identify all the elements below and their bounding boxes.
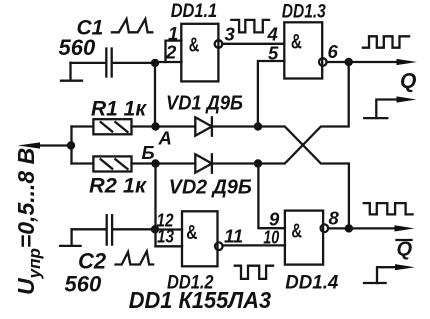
svg-text:DD1.3: DD1.3 bbox=[282, 2, 326, 23]
wire node B to VD2 bbox=[156, 162, 196, 164]
svg-text:13: 13 bbox=[157, 225, 175, 246]
op gate DD1.1 bbox=[181, 24, 218, 82]
C2 input stub bbox=[60, 229, 81, 246]
svg-text:VD2 Д9Б: VD2 Д9Б bbox=[169, 176, 252, 199]
op gate DD1.3 bbox=[284, 22, 322, 78]
svg-text:DD1.4: DD1.4 bbox=[285, 273, 338, 294]
square wave icon Q-bar bbox=[364, 203, 413, 214]
node arrow junction bbox=[67, 141, 75, 149]
Q-bar label bbox=[397, 239, 413, 261]
Q step icon bbox=[364, 96, 416, 118]
op gate DD1.4 bbox=[285, 211, 323, 265]
wire left vertical R1-R2 bbox=[70, 127, 72, 164]
Q output arrowhead bbox=[397, 59, 418, 65]
svg-text:11: 11 bbox=[224, 226, 243, 247]
DD1.2 output bubble bbox=[215, 242, 223, 250]
wire node B to C2 junction and pin13 bbox=[154, 164, 156, 247]
square wave icon Q bbox=[363, 36, 409, 47]
op gate DD1.2 bbox=[182, 211, 218, 266]
svg-text:560: 560 bbox=[65, 272, 102, 297]
svg-text:VD1 Д9Б: VD1 Д9Б bbox=[166, 92, 243, 115]
DD1.1 output bubble bbox=[215, 40, 223, 48]
node A bbox=[151, 122, 159, 130]
node on VD1 row bbox=[254, 122, 262, 130]
wire Q-bar output with arrow bbox=[328, 227, 398, 229]
svg-text:&: & bbox=[291, 31, 302, 54]
resistor R1 bbox=[72, 119, 156, 134]
Q-bar output arrowhead bbox=[395, 225, 415, 231]
capacitor C2 bbox=[72, 215, 155, 244]
svg-text:&: & bbox=[189, 34, 200, 56]
resistor R2 bbox=[72, 156, 156, 171]
capacitor C1 bbox=[71, 49, 156, 77]
DD1.3 output bubble bbox=[319, 58, 327, 66]
wire pin11 to pin10 bbox=[223, 244, 285, 246]
wire C1 junction to node A bbox=[154, 63, 156, 127]
svg-text:C2: C2 bbox=[78, 249, 107, 274]
sawtooth icon near C1 bbox=[112, 19, 152, 32]
diode VD1 bbox=[195, 117, 258, 135]
C1 input stub bbox=[61, 63, 82, 81]
wire node A to VD1 bbox=[156, 125, 196, 127]
svg-text:2: 2 bbox=[165, 42, 177, 63]
svg-text:A: A bbox=[158, 127, 172, 148]
wire DD1.2 pin12 bbox=[156, 228, 183, 230]
svg-text:DD1 К155ЛА3: DD1 К155ЛА3 bbox=[129, 287, 271, 313]
svg-text:8: 8 bbox=[329, 208, 340, 229]
svg-text:6: 6 bbox=[328, 41, 339, 62]
svg-text:10: 10 bbox=[263, 227, 280, 248]
svg-text:Q: Q bbox=[397, 239, 413, 261]
node: C2 junction bbox=[151, 225, 159, 233]
control input arrow bbox=[18, 142, 71, 148]
wire Q output with arrow bbox=[327, 61, 398, 63]
Q-bar step icon bbox=[364, 264, 415, 283]
svg-text:Q: Q bbox=[400, 70, 416, 93]
svg-text:&: & bbox=[186, 221, 197, 244]
sawtooth icon near C2 bbox=[116, 251, 154, 264]
wire cross-coupling Q-bar to VD1 row bbox=[258, 127, 349, 229]
svg-text:DD1.1: DD1.1 bbox=[171, 1, 218, 22]
node on VD2 row bbox=[254, 159, 262, 167]
node: C1 junction bbox=[151, 59, 159, 67]
svg-text:R2 1к: R2 1к bbox=[89, 175, 147, 198]
wire DD1.1 pin2 bbox=[155, 61, 182, 63]
square wave icon top middle bbox=[231, 20, 269, 33]
square wave icon bottom middle bbox=[235, 266, 273, 279]
wire DD1.1 pin1 tie bbox=[166, 41, 182, 62]
svg-text:Б: Б bbox=[142, 142, 155, 163]
diode VD2 bbox=[195, 154, 258, 172]
node B bbox=[151, 159, 159, 167]
wire DD1.3 pin5 bbox=[258, 61, 284, 127]
wire pin3 to pin4 bbox=[222, 43, 284, 45]
svg-text:3: 3 bbox=[225, 24, 236, 45]
DD1.4 output bubble bbox=[321, 224, 329, 232]
wire cross-coupling Q to VD2 row bbox=[258, 62, 349, 164]
svg-text:R1 1к: R1 1к bbox=[91, 98, 147, 121]
node: Q junction bbox=[345, 58, 353, 66]
node: Q-bar junction bbox=[345, 224, 353, 232]
wire DD1.2 pin13 bbox=[156, 245, 183, 247]
svg-text:&: & bbox=[291, 220, 302, 243]
svg-text:4: 4 bbox=[267, 24, 278, 45]
svg-text:560: 560 bbox=[59, 35, 96, 60]
pin 9 wire bbox=[258, 164, 285, 229]
